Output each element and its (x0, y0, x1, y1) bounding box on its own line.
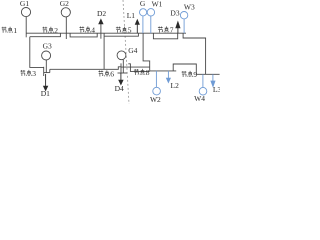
wire second circuit line 2-4 (70, 33, 97, 37)
svg-text:W4: W4 (194, 94, 205, 103)
svg-text:D3: D3 (170, 9, 179, 18)
svg-text:L1: L1 (127, 11, 136, 20)
node 6 bus bottom bar (118, 72, 128, 74)
load L3 (211, 74, 215, 86)
wire riser node3 (49, 69, 51, 72)
svg-text:6: 6 (110, 70, 114, 79)
node 节点8 label (134, 68, 150, 77)
node 节点1 label (2, 26, 18, 35)
load D3 (176, 22, 180, 33)
wind unit W3 (180, 12, 187, 34)
node 节点2 label (42, 26, 58, 35)
svg-text:L3: L3 (213, 85, 220, 94)
generator G4 (117, 51, 126, 73)
wire second circuit line 1-2 (30, 33, 61, 37)
svg-text:8: 8 (146, 68, 150, 77)
wire line node7 to node9 (183, 33, 206, 74)
wire line node3 to node6 (50, 67, 121, 70)
node 9 bus (197, 73, 220, 75)
svg-text:L2: L2 (171, 81, 180, 90)
generator G3 (42, 51, 51, 73)
wire second circuit line 6-8 (128, 64, 149, 72)
node 节点5 label (116, 26, 132, 35)
svg-text:D4: D4 (115, 84, 124, 93)
wire line node8 to node9 (173, 64, 196, 74)
node 1 bus (25, 17, 27, 38)
svg-text:W3: W3 (184, 2, 195, 11)
svg-text:D2: D2 (97, 9, 106, 18)
svg-text:W2: W2 (150, 95, 161, 104)
generator G1 (21, 8, 30, 17)
node 8 bus (150, 70, 177, 72)
wire second circuit line 4-5 (104, 33, 138, 36)
svg-text:9: 9 (193, 70, 197, 79)
node 节点7 label (158, 26, 174, 35)
wire line node5 to node8 (143, 33, 150, 71)
svg-text:G: G (140, 0, 146, 8)
wind unit W2 (153, 71, 161, 95)
wind unit W1 (147, 9, 154, 34)
svg-text:3: 3 (32, 69, 36, 78)
node 2 bus (65, 17, 67, 39)
svg-text:4: 4 (91, 26, 95, 35)
node 节点4 label (79, 26, 95, 35)
wind unit G (140, 9, 147, 34)
svg-text:7: 7 (170, 26, 174, 35)
node 节点6 label (98, 70, 114, 79)
svg-text:G4: G4 (128, 46, 137, 55)
node 6 bus (120, 63, 122, 73)
wire second circuit line 5-7 (153, 33, 177, 39)
wire line node6 to node8 (121, 66, 150, 68)
node 4 bus (100, 24, 102, 39)
svg-text:1: 1 (13, 26, 17, 35)
svg-text:2: 2 (54, 26, 58, 35)
node 节点9 label (182, 70, 198, 79)
svg-text:G2: G2 (60, 0, 69, 8)
generator G2 (61, 8, 70, 17)
node 3 bus (43, 67, 45, 76)
svg-text:W1: W1 (152, 0, 163, 9)
load D4 (119, 73, 123, 84)
node 节点3 label (20, 69, 36, 78)
boundary dashed line (123, 0, 129, 104)
svg-text:G1: G1 (20, 0, 29, 8)
wire line node4 to node6 (103, 33, 105, 69)
load D2 (99, 19, 103, 23)
wire main top line node1-node2-node4-node5-node7 (26, 32, 186, 34)
svg-text:G3: G3 (43, 41, 52, 50)
load L2 (167, 71, 171, 83)
node 3 bus bottom bar (44, 72, 50, 74)
load L1 (135, 20, 139, 33)
load D1 (44, 74, 48, 90)
svg-text:D1: D1 (41, 89, 50, 98)
wire line node1 to node3 (30, 37, 44, 68)
svg-text:5: 5 (128, 26, 132, 35)
wind unit W4 (199, 74, 207, 95)
